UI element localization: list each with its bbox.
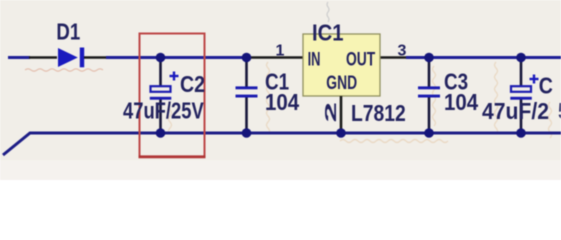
svg-text:D1: D1 <box>56 20 80 45</box>
svg-text:2: 2 <box>322 102 340 122</box>
svg-text:1: 1 <box>276 43 285 60</box>
svg-text:L7812: L7812 <box>351 102 406 127</box>
svg-text:104: 104 <box>444 89 478 115</box>
svg-text:C2: C2 <box>180 72 205 98</box>
svg-text:OUT: OUT <box>346 48 375 70</box>
svg-text:IC1: IC1 <box>312 19 343 46</box>
svg-text:IN: IN <box>308 49 321 70</box>
svg-text:47uF/25V: 47uF/25V <box>123 99 204 124</box>
svg-text:3: 3 <box>398 43 407 60</box>
svg-text:C: C <box>539 73 553 99</box>
svg-text:104: 104 <box>265 89 299 115</box>
svg-text:GND: GND <box>326 72 357 94</box>
svg-text:47uF/2: 47uF/2 <box>482 98 549 124</box>
